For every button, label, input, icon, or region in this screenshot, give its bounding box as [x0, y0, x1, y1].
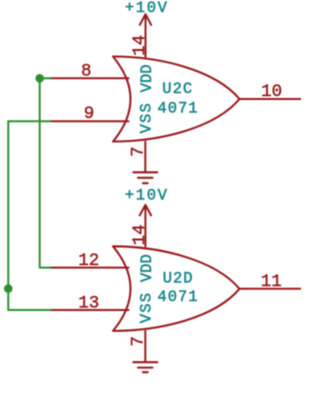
- pin 9 of U2C: [50, 120, 129, 122]
- junction dot (left bus): [4, 284, 13, 293]
- svg-text:12: 12: [78, 251, 99, 271]
- power symbol +10V (top, for U2C pin 14): [140, 14, 151, 56]
- pin 11 output of U2D: [240, 288, 302, 290]
- pin 10 output of U2C: [240, 98, 302, 100]
- svg-text:+10V: +10V: [125, 187, 169, 205]
- svg-text:VDD: VDD: [138, 254, 156, 282]
- or-gate U2C body: [113, 57, 240, 142]
- svg-text:13: 13: [78, 293, 99, 313]
- svg-text:9: 9: [84, 104, 95, 124]
- wire from left bus down to pin 13: [8, 121, 50, 310]
- svg-text:VSS: VSS: [137, 292, 155, 324]
- pin 13 of U2D: [50, 309, 129, 311]
- svg-text:14: 14: [130, 224, 150, 245]
- svg-text:8: 8: [81, 62, 92, 82]
- wire from junction down to pin 12: [40, 78, 51, 267]
- svg-text:+10V: +10V: [125, 0, 169, 17]
- svg-text:VSS: VSS: [137, 102, 155, 134]
- junction dot (pin 8 net): [35, 74, 44, 83]
- svg-text:U2D: U2D: [163, 270, 194, 288]
- svg-text:11: 11: [261, 272, 282, 292]
- pin 7 of U2C: [144, 142, 146, 173]
- ground symbol (U2C): [133, 172, 157, 183]
- svg-text:7: 7: [128, 336, 148, 347]
- svg-text:4071: 4071: [157, 288, 198, 306]
- svg-text:VDD: VDD: [138, 64, 156, 92]
- pin 8 of U2C: [50, 77, 129, 79]
- or-gate U2D body: [113, 246, 240, 331]
- svg-text:U2C: U2C: [162, 80, 193, 98]
- wire from pin 9 to left bus: [8, 120, 50, 122]
- svg-text:10: 10: [261, 82, 282, 102]
- pin 12 of U2D: [50, 267, 129, 269]
- svg-text:7: 7: [128, 146, 148, 157]
- wire from junction to pin 8: [40, 77, 51, 79]
- svg-text:14: 14: [130, 35, 150, 56]
- pin 7 of U2D: [144, 331, 146, 362]
- ground symbol (U2D): [133, 362, 157, 372]
- power symbol +10V (middle, for U2D pin 14): [140, 205, 151, 247]
- svg-text:4071: 4071: [157, 99, 198, 117]
